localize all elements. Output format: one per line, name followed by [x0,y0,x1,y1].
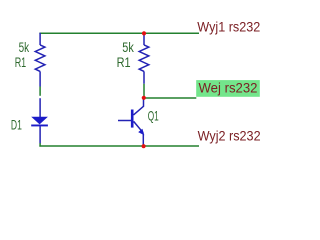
svg-text:5k: 5k [19,39,30,55]
svg-text:Wyj1 rs232: Wyj1 rs232 [197,19,260,35]
svg-text:R1: R1 [15,54,27,70]
svg-text:R1: R1 [117,54,131,70]
svg-text:Q1: Q1 [148,108,159,124]
svg-text:D1: D1 [11,117,22,133]
svg-text:Wej rs232: Wej rs232 [199,80,258,96]
svg-text:Wyj2 rs232: Wyj2 rs232 [198,128,261,144]
svg-text:5k: 5k [122,39,134,55]
